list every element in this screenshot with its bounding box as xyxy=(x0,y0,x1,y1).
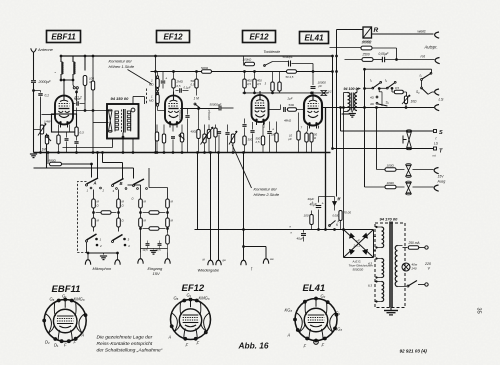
wire feed eingang left xyxy=(128,184,141,186)
contacts under A xyxy=(90,187,92,189)
transformer 94 170 00 box xyxy=(375,223,405,308)
ground left end xyxy=(30,153,37,155)
lower arm A xyxy=(87,234,97,240)
svg-text:1/4W: 1/4W xyxy=(44,120,51,124)
svg-text:94 170 00: 94 170 00 xyxy=(380,217,399,222)
svg-text:+: + xyxy=(351,110,353,114)
eingang h resistor 2 xyxy=(149,227,159,231)
svg-text:400Ω: 400Ω xyxy=(191,130,199,134)
lamp xyxy=(402,266,403,268)
antenna xyxy=(31,48,36,52)
resistor x262 xyxy=(261,136,264,145)
resistor 500 ohm rail xyxy=(202,70,212,74)
capacitor x227 xyxy=(225,132,229,134)
socket EL41 wiring arcs xyxy=(296,313,305,333)
svg-text:ge: ge xyxy=(223,258,227,262)
svg-text:0,1: 0,1 xyxy=(45,94,50,98)
tube EF12 no1 xyxy=(165,96,182,125)
resistor x208 xyxy=(207,130,210,139)
wire I3 down xyxy=(421,80,423,87)
svg-text:15V: 15V xyxy=(438,175,445,179)
wire drop x155 xyxy=(155,56,157,153)
svg-text:Korrektur der: Korrektur der xyxy=(254,187,278,192)
capacitor anode xyxy=(76,101,78,106)
svg-text:50 4,5: 50 4,5 xyxy=(286,75,294,79)
hourglass b xyxy=(396,186,405,188)
svg-text:40μF: 40μF xyxy=(297,237,304,241)
link resistor AB xyxy=(101,211,111,215)
svg-text:50μF: 50μF xyxy=(74,97,81,101)
svg-text:2: 2 xyxy=(99,244,102,248)
resistor 3000 xyxy=(361,46,372,50)
wire grid EBF11 xyxy=(42,114,56,116)
wire contact line y88 xyxy=(365,87,373,89)
svg-text:A: A xyxy=(287,333,291,338)
speaker wire 2 xyxy=(365,107,435,109)
pot arrow mid xyxy=(203,127,214,141)
wire x336 vertical xyxy=(336,30,338,197)
svg-text:Die gezeichnete Lage der: Die gezeichnete Lage der xyxy=(97,335,153,341)
socket EBF11 outer xyxy=(44,300,86,342)
svg-text:53Ω: 53Ω xyxy=(289,103,295,107)
coupling cap el41 xyxy=(283,107,285,112)
svg-text:10000μF: 10000μF xyxy=(207,109,211,120)
connector 15V a xyxy=(434,168,439,174)
label box EF12 xyxy=(243,31,276,43)
wire to LS connector xyxy=(428,92,432,94)
wire top cluster xyxy=(365,68,432,70)
wire to grid cap xyxy=(63,80,65,92)
mikrophon ground line xyxy=(88,252,119,254)
tube EF12 no2 xyxy=(252,95,269,122)
resistor 2M korrektur xyxy=(156,79,159,88)
svg-text:1/2: 1/2 xyxy=(328,90,332,94)
capacitor x244b xyxy=(242,124,246,126)
ground eingang xyxy=(153,249,155,250)
resistor x276 xyxy=(275,133,278,142)
socket EF12 inner tube xyxy=(179,309,201,331)
svg-text:I₁: I₁ xyxy=(370,79,372,83)
branch sw xyxy=(242,245,245,248)
wire top to relay xyxy=(337,29,364,31)
svg-text:+: + xyxy=(272,128,274,132)
capacitor 0,1uF xyxy=(38,92,44,98)
eingang caps xyxy=(146,243,150,245)
svg-text:2: 2 xyxy=(263,125,266,129)
svg-text:G₁: G₁ xyxy=(336,311,341,316)
fuse 250mA xyxy=(403,247,408,249)
connector S xyxy=(434,130,437,133)
jack bowtie M xyxy=(321,91,327,96)
resistor 100k tonblende xyxy=(245,62,255,66)
wire to pot xyxy=(404,91,407,93)
wire box leg left xyxy=(112,132,114,148)
primary winding 2 xyxy=(382,259,384,278)
socket EBF11 wiring arcs xyxy=(45,314,54,334)
column resistors mikrophon xyxy=(92,199,96,208)
svg-text:M: M xyxy=(338,198,341,202)
contact K xyxy=(329,225,331,227)
svg-text:EBF11: EBF11 xyxy=(51,32,76,41)
svg-text:EL41: EL41 xyxy=(303,283,326,294)
svg-text:Höhen 1.Stufe: Höhen 1.Stufe xyxy=(109,64,135,69)
svg-text:15V: 15V xyxy=(153,271,160,276)
wire rot line xyxy=(345,59,362,61)
svg-text:0,3: 0,3 xyxy=(80,131,85,135)
switch arm B xyxy=(113,179,124,185)
socket EL41 inner tube xyxy=(304,308,328,332)
terminal circle xyxy=(131,108,135,112)
resistor 1M xyxy=(45,135,48,144)
svg-text:70.00: 70.00 xyxy=(344,211,352,215)
wire drop x243 long xyxy=(243,153,245,247)
svg-text:Ausg: Ausg xyxy=(437,180,446,184)
wire pot to bottom xyxy=(405,104,407,108)
svg-text:1M: 1M xyxy=(42,148,47,152)
svg-text:4,5: 4,5 xyxy=(247,82,251,86)
cathode parts EF12-1 xyxy=(163,125,165,134)
wire x332 vertical xyxy=(332,56,334,149)
socket EBF11 inner tube xyxy=(53,309,77,333)
electrolytic cap x162 xyxy=(161,80,166,82)
socket EBF11 pins xyxy=(57,299,61,303)
resistor 400 b xyxy=(253,79,256,88)
svg-text:EF12: EF12 xyxy=(182,283,205,294)
connector rot xyxy=(435,58,440,64)
bracket 4ohm xyxy=(378,89,380,92)
svg-text:G₁: G₁ xyxy=(187,293,192,298)
resistor x181 xyxy=(180,133,183,142)
electrolytic near EL41 xyxy=(342,113,351,115)
grid stopper resistors xyxy=(155,132,158,141)
switch I2 xyxy=(386,87,388,89)
resistor 0,3 drop xyxy=(76,108,78,127)
svg-text:rot: rot xyxy=(433,154,436,158)
fork sw xyxy=(263,259,268,264)
svg-text:bl: bl xyxy=(203,258,206,262)
svg-text:EF12: EF12 xyxy=(163,32,183,41)
wire y196 link xyxy=(319,196,335,198)
fork mikrophon 1 xyxy=(87,253,89,260)
wire weiss xyxy=(372,33,434,35)
eingang third resistor xyxy=(166,235,170,244)
svg-text:pF: pF xyxy=(318,84,323,88)
jack S-T xyxy=(406,130,411,132)
wire 15V a xyxy=(376,108,378,170)
junction dots 229 xyxy=(317,228,320,231)
svg-text:Ω: Ω xyxy=(132,197,134,201)
svg-text:Wiedergabe: Wiedergabe xyxy=(198,268,220,273)
wire box left exit b xyxy=(93,122,109,124)
svg-text:EF12: EF12 xyxy=(249,32,269,41)
svg-text:KMG₃: KMG₃ xyxy=(199,296,210,301)
svg-text:2: 2 xyxy=(102,189,105,193)
wire anode EL41 xyxy=(312,92,314,96)
svg-text:990Ω: 990Ω xyxy=(49,158,57,162)
capacitor x252 xyxy=(250,130,254,132)
primary winding 3 xyxy=(382,282,384,302)
lower contacts B xyxy=(123,238,126,241)
svg-text:35: 35 xyxy=(476,308,482,314)
capacitor x187 xyxy=(185,115,189,117)
relay R xyxy=(363,27,372,38)
wire box top link xyxy=(132,97,134,105)
connector T xyxy=(434,147,437,150)
svg-text:LS: LS xyxy=(439,97,444,102)
capacitor 0,1uF stage1 xyxy=(179,88,181,93)
socket EF12 outer xyxy=(171,300,211,340)
label box EBF11 xyxy=(47,31,81,43)
wire 15V b xyxy=(365,186,385,188)
svg-text:500Ω30: 500Ω30 xyxy=(353,268,364,272)
svg-text:6,3: 6,3 xyxy=(368,284,372,288)
svg-text:+: + xyxy=(312,201,314,205)
switch I1 xyxy=(372,87,374,89)
svg-text:220: 220 xyxy=(424,262,431,266)
potentiometer p2 xyxy=(203,134,206,143)
fork mikrophon 2 xyxy=(117,253,119,260)
lower arm B xyxy=(113,235,123,241)
wire link I1-I2 xyxy=(381,87,387,89)
svg-text:2500: 2500 xyxy=(362,53,370,57)
transformer 94 150 00 box xyxy=(107,104,139,139)
svg-text:250 mA: 250 mA xyxy=(408,241,420,245)
wire drop x243 xyxy=(243,56,245,66)
wire 990 to contact xyxy=(62,163,92,165)
switch S2 arm xyxy=(378,104,388,106)
lower contacts A xyxy=(95,238,98,241)
potentiometer volume xyxy=(41,135,43,153)
switch S4 xyxy=(421,87,423,89)
switch arm volume xyxy=(46,135,48,137)
svg-text:0,5: 0,5 xyxy=(177,84,181,88)
svg-text:KMG₃: KMG₃ xyxy=(74,297,85,302)
resistors right pair xyxy=(271,82,274,91)
ground mikrophon xyxy=(103,253,105,255)
svg-text:100Ω: 100Ω xyxy=(387,181,395,185)
resistor 2500 xyxy=(362,58,373,62)
svg-text:0,05μF: 0,05μF xyxy=(379,52,390,56)
svg-text:2x0,1: 2x0,1 xyxy=(353,244,361,248)
svg-text:Autspr.: Autspr. xyxy=(424,45,438,50)
ground under transformer xyxy=(351,111,353,113)
wire x343 vertical xyxy=(343,108,345,230)
bridge rectifier xyxy=(343,230,345,258)
svg-text:μF: μF xyxy=(356,239,361,243)
coupling cap 50000pF xyxy=(218,106,220,111)
svg-text:50000pF: 50000pF xyxy=(210,103,222,107)
potentiometer 10ohm xyxy=(404,96,407,104)
svg-text:240: 240 xyxy=(411,267,417,271)
svg-text:2μF: 2μF xyxy=(287,97,293,101)
connector 15V b xyxy=(434,185,439,191)
capacitor 0,05uF xyxy=(381,57,383,63)
capacitor 2000pF xyxy=(31,80,36,83)
svg-text:G₆: G₆ xyxy=(50,297,55,302)
wire box left exit a xyxy=(73,110,109,112)
tube EBF11 xyxy=(55,96,73,125)
svg-text:10Ω: 10Ω xyxy=(411,99,418,103)
svg-text:92 921 03 (4): 92 921 03 (4) xyxy=(400,349,428,354)
wire after 3000 xyxy=(372,47,397,49)
resistor 50 rail2 xyxy=(287,70,297,74)
wire link coils xyxy=(61,79,73,81)
core lines xyxy=(389,222,391,308)
svg-text:1 M: 1 M xyxy=(194,97,200,101)
svg-text:5000pF: 5000pF xyxy=(283,55,293,59)
wire anode EF12-1 xyxy=(180,108,218,110)
socket EF12 pins xyxy=(182,299,186,303)
wire screen rail xyxy=(151,71,334,73)
wire feed arm A xyxy=(97,153,99,179)
switch mains xyxy=(403,286,407,288)
potentiometer korrektur2 xyxy=(231,134,234,143)
wire drop x210 xyxy=(210,153,212,261)
fork ge xyxy=(216,260,221,265)
svg-text:μF: μF xyxy=(288,137,293,141)
svg-text:weiß: weiß xyxy=(418,30,427,34)
contacts 4ohm xyxy=(376,96,378,98)
wire y47 xyxy=(330,47,361,49)
svg-text:S: S xyxy=(439,130,443,136)
svg-text:94 150 00: 94 150 00 xyxy=(111,96,130,101)
svg-text:D₂: D₂ xyxy=(45,340,50,345)
svg-text:0,5: 0,5 xyxy=(191,83,195,87)
resistor 100 left xyxy=(310,215,313,225)
grid resistor 10k xyxy=(288,108,297,111)
wire box leg right xyxy=(132,139,134,153)
cathode parts EF12-2 xyxy=(252,122,254,127)
svg-text:3000Ω: 3000Ω xyxy=(362,41,372,45)
svg-text:Höhen 2.Stufe: Höhen 2.Stufe xyxy=(254,192,280,197)
svg-text:50000μF: 50000μF xyxy=(178,109,182,120)
svg-text:Mikrophon: Mikrophon xyxy=(93,266,112,271)
connector weiss xyxy=(435,32,440,38)
svg-text:EL41: EL41 xyxy=(304,33,324,42)
coil L2 xyxy=(72,56,74,62)
resistor x244b xyxy=(243,136,246,145)
svg-text:0,5: 0,5 xyxy=(395,86,399,90)
wire 2w branch xyxy=(289,229,295,231)
svg-text:2000pF: 2000pF xyxy=(38,80,52,84)
resistor 2M xyxy=(172,79,175,88)
socket EL41 pins xyxy=(303,300,307,304)
transformer core dashed xyxy=(121,110,123,133)
transformer secondary comb xyxy=(127,111,130,114)
fork eingang 1 xyxy=(138,259,143,264)
fork bl xyxy=(208,260,213,265)
switch small x181 xyxy=(179,135,181,137)
primary winding 1 xyxy=(382,227,384,248)
electrolytic x269 xyxy=(267,131,272,133)
dashed frame left xyxy=(78,182,87,253)
wire B+ rail top xyxy=(61,55,334,57)
secondary winding xyxy=(395,245,397,286)
jack symbol inside box xyxy=(109,111,113,132)
capacitor 40uF a xyxy=(316,205,322,207)
wire drop x218 xyxy=(218,153,220,261)
svg-text:KG₃: KG₃ xyxy=(335,327,343,332)
resistor 100a xyxy=(385,168,396,172)
svg-text:Antenne: Antenne xyxy=(37,47,54,52)
wire feed eingang right xyxy=(148,168,150,188)
hourglass a xyxy=(396,169,405,171)
dashed line x146 xyxy=(146,89,148,105)
wire drop x92 xyxy=(92,56,94,111)
wire y147 to tube xyxy=(63,147,113,149)
switch contacts diode xyxy=(72,80,74,85)
svg-text:R: R xyxy=(374,27,379,34)
svg-text:2,5: 2,5 xyxy=(255,140,260,144)
wire box bottom tap xyxy=(122,133,124,153)
wire bus 3 xyxy=(34,167,134,169)
contacts under C xyxy=(137,188,139,190)
resistor top x92 xyxy=(91,81,94,90)
svg-text:G₆: G₆ xyxy=(174,296,179,301)
wire ground bus xyxy=(34,152,331,154)
resistor 400 x198 xyxy=(197,130,200,139)
bold cathode riser xyxy=(325,108,327,230)
capacitor 45uF xyxy=(74,141,78,143)
svg-text:Korrektur der: Korrektur der xyxy=(109,59,133,64)
svg-text:A: A xyxy=(81,333,85,338)
wire el41 anode to cluster xyxy=(344,107,365,109)
svg-text:D₁: D₁ xyxy=(54,343,59,348)
label box EF12 xyxy=(157,31,190,43)
coil L1 xyxy=(60,56,62,62)
switch I3 top right xyxy=(431,69,433,72)
capacitor x218.5 xyxy=(217,131,221,133)
svg-text:500Ω: 500Ω xyxy=(201,66,209,70)
socket EL41 key xyxy=(314,340,319,345)
wire T line xyxy=(333,148,434,150)
svg-text:B: B xyxy=(120,181,123,186)
svg-text:100kΩ: 100kΩ xyxy=(243,58,253,62)
svg-text:4,3: 4,3 xyxy=(368,262,372,266)
resistor 500 screen xyxy=(195,79,198,88)
caps at 229 line xyxy=(301,233,306,235)
wire S line xyxy=(341,130,434,132)
resistor R screen 100k xyxy=(84,56,86,71)
wire feed arm C xyxy=(133,168,135,179)
wire drop x197 xyxy=(197,153,199,230)
resistor 0000 v xyxy=(339,211,342,221)
fork t xyxy=(241,260,246,265)
svg-text:Tonblende: Tonblende xyxy=(264,50,281,54)
transformer primary comb xyxy=(115,111,118,114)
svg-text:300: 300 xyxy=(248,138,253,142)
contacts under B xyxy=(116,188,118,190)
switch arm A xyxy=(87,178,99,184)
svg-text:Reiss-Kontakte entspricht: Reiss-Kontakte entspricht xyxy=(97,341,153,347)
svg-text:4,5: 4,5 xyxy=(257,82,261,86)
svg-text:der Schaltstellung „Aufnahme“: der Schaltstellung „Aufnahme“ xyxy=(97,348,163,354)
wire antenna down xyxy=(33,52,35,152)
cathode EL41 parts xyxy=(307,126,309,132)
resistor x215 xyxy=(214,128,217,137)
resistor 240 a xyxy=(243,79,246,88)
svg-text:2MΩ: 2MΩ xyxy=(176,80,184,84)
svg-text:t: t xyxy=(436,137,437,141)
svg-text:ƒ: ƒ xyxy=(251,267,253,271)
wire anode EF12-2 to grid EL41 xyxy=(269,109,281,111)
svg-text:0.000: 0.000 xyxy=(333,214,340,218)
svg-text:A: A xyxy=(93,181,97,186)
resistor 0,5 xyxy=(391,88,393,92)
ground transformer xyxy=(390,308,392,311)
svg-text:G₁: G₁ xyxy=(62,294,67,299)
diode M xyxy=(333,202,337,206)
